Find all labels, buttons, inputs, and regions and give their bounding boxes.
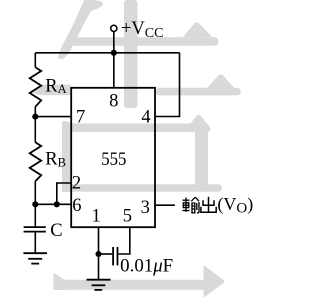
ground under pin 1 [87,280,111,290]
background watermark [32,0,241,297]
svg-text:(VO): (VO) [217,194,253,216]
wire RB to capacitor C [34,181,36,227]
svg-text:7: 7 [76,107,85,127]
svg-text:8: 8 [109,91,118,111]
junction dot node RA-RB [32,114,38,120]
wire pin 3 output [155,204,175,206]
svg-text:5: 5 [123,207,132,227]
svg-text:4: 4 [141,108,150,128]
wire pin 2 step [57,183,72,204]
junction dot pin 1 [95,251,101,257]
wire RA to RB [34,107,36,143]
wire pin 6 rail [35,203,71,205]
wire capacitor to pin 5 [118,227,129,254]
wire pin 1 to ground [98,227,100,280]
wire node to pin 7 [35,116,71,118]
wire top rail [35,52,179,54]
junction dot node RB-C [32,201,38,207]
IC 555 box U1 [71,88,155,227]
Vcc terminal circle [111,25,117,31]
junction dot pin2 step [54,201,60,207]
label output shu (CJK) [183,197,200,213]
wire left rail upper [34,53,36,68]
label output chu (CJK) [201,197,216,213]
svg-text:3: 3 [141,198,150,218]
capacitor 0.01uF [113,247,117,265]
svg-text:RA: RA [45,76,66,96]
wire pin 4 to Vcc rail [155,53,180,117]
resistor RA [30,67,42,107]
svg-text:1: 1 [92,207,101,227]
svg-text:6: 6 [72,196,81,216]
wire pin1 to capacitor 0.01uF [99,253,113,255]
wire C to ground [34,232,36,254]
svg-text:0.01μF: 0.01μF [120,257,173,277]
svg-text:2: 2 [72,174,81,194]
capacitor C [24,227,46,232]
junction dot Vcc rail [111,50,117,56]
svg-text:+VCC: +VCC [121,19,163,41]
svg-text:C: C [50,221,62,241]
svg-text:555: 555 [101,150,126,170]
ground under C [23,253,47,263]
wire Vcc to pin 8 [113,32,115,88]
resistor RB [30,142,42,181]
